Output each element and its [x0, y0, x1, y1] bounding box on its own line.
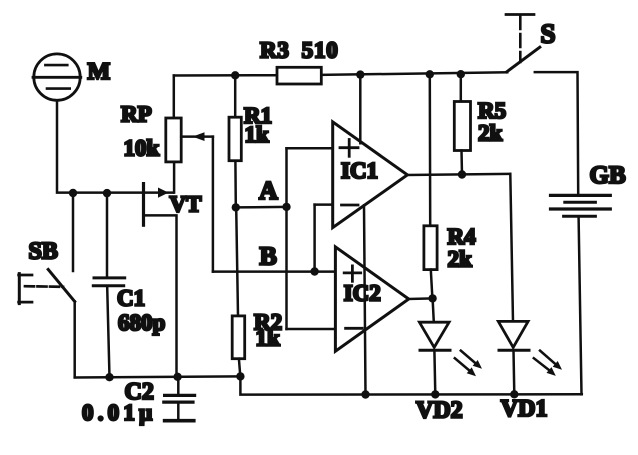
op-amp IC2 — [335, 247, 408, 351]
svg-text:1k: 1k — [256, 326, 281, 351]
junction C1/bottom rail — [105, 373, 113, 381]
svg-text:R3 510: R3 510 — [260, 38, 339, 63]
resistor R3 — [277, 67, 321, 84]
transistor VT — [144, 184, 177, 377]
potentiometer RP — [166, 76, 213, 193]
wire IC2 output — [409, 297, 433, 300]
node dot C1 branch — [103, 189, 111, 197]
svg-text:0.01µ: 0.01µ — [82, 400, 157, 425]
wire step down — [240, 376, 581, 394]
svg-text:2k: 2k — [478, 121, 503, 146]
svg-text:10k: 10k — [124, 135, 160, 160]
microphone M — [33, 54, 81, 100]
pushbutton SB — [19, 193, 75, 377]
VD1 arrows — [534, 351, 562, 376]
wire IC1 plus stub — [287, 147, 333, 150]
node A junction dot — [232, 203, 240, 211]
bottom rail left — [75, 376, 241, 377]
resistor R5 — [454, 74, 470, 174]
wire IC2 minus stub — [287, 328, 336, 331]
svg-text:VD2: VD2 — [416, 398, 463, 424]
junction R5/top rail — [457, 70, 465, 78]
resistor R2 — [232, 207, 245, 376]
wire IC1 output to VD1 — [407, 174, 513, 322]
svg-text:RP: RP — [121, 102, 152, 127]
svg-text:2k: 2k — [448, 247, 473, 272]
svg-text:SB: SB — [29, 239, 58, 265]
junction R2/bottom rail — [236, 372, 244, 380]
wire M to gate — [57, 101, 173, 193]
node dot SB branch — [69, 189, 77, 197]
VD2 arrows — [455, 351, 482, 377]
junction R1/top rail — [231, 71, 239, 79]
LED VD2 — [419, 298, 450, 394]
svg-text:S: S — [541, 19, 556, 49]
wire A-vertical — [285, 148, 288, 329]
resistor R1 — [229, 75, 241, 207]
junction R4/top rail — [426, 70, 434, 78]
battery GB — [551, 195, 611, 394]
junction IC ground pin/bottom rail — [361, 390, 369, 398]
svg-text:1k: 1k — [245, 122, 270, 147]
junction IC1 supply/top rail — [356, 70, 364, 78]
wire node A to IC1+/IC2- branch — [236, 206, 287, 209]
wire RP wiper to node B — [212, 137, 215, 272]
switch S — [506, 15, 578, 195]
wire node B to IC2+ — [213, 270, 336, 273]
capacitor C2 — [164, 377, 195, 421]
svg-text:VT: VT — [170, 192, 202, 217]
IC1 ground pin — [364, 206, 366, 395]
svg-text:C1: C1 — [117, 286, 145, 311]
junction VD2/bottom rail — [431, 390, 439, 398]
junction VT source/C2/bottom rail — [173, 373, 181, 381]
svg-text:IC1: IC1 — [341, 158, 378, 183]
svg-text:GB: GB — [590, 162, 626, 189]
LED VD1 — [498, 321, 529, 394]
op-amp IC1 — [333, 122, 408, 228]
wire IC1 minus stub — [315, 203, 333, 206]
svg-text:IC2: IC2 — [344, 280, 381, 305]
junction A branch — [282, 203, 290, 211]
resistor R4 — [424, 74, 437, 298]
junction R4/IC2 output/VD2 — [428, 294, 436, 302]
svg-text:B: B — [260, 242, 277, 271]
junction B branch — [310, 267, 318, 275]
junction VD1/bottom rail — [510, 390, 518, 398]
svg-text:A: A — [259, 176, 278, 205]
svg-text:VD1: VD1 — [501, 396, 548, 422]
svg-text:680p: 680p — [118, 310, 165, 335]
IC1 supply pin — [359, 75, 362, 144]
junction R5/IC1 output — [458, 170, 466, 178]
top rail — [174, 74, 277, 77]
svg-text:R4: R4 — [448, 224, 477, 249]
svg-text:M: M — [88, 59, 111, 85]
capacitor C1 — [93, 193, 124, 377]
wire B-vertical — [313, 205, 316, 272]
svg-text:R5: R5 — [478, 98, 506, 123]
